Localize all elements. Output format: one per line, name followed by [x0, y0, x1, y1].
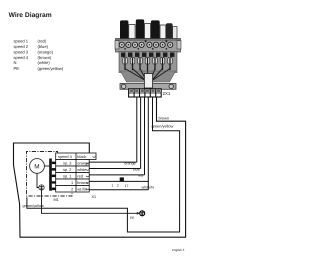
svg-text:white/N: white/N: [142, 186, 155, 190]
svg-text:(green/yellow): (green/yellow): [38, 66, 64, 71]
connector base screws: [122, 84, 174, 88]
wire row5 brown capacitor: [89, 180, 148, 182]
svg-text:speed 2: speed 2: [14, 44, 29, 49]
svg-text:speed 4: speed 4: [58, 154, 73, 159]
wire motor PE: [37, 173, 138, 213]
svg-text:PE: PE: [14, 66, 20, 71]
terminal row texts: [58, 154, 89, 192]
svg-text:X1: X1: [92, 195, 97, 199]
svg-text:(white): (white): [38, 60, 51, 65]
wire speed2 vertical w3: [144, 97, 146, 175]
svg-text:2: 2: [71, 186, 73, 191]
terminal block X1 table: [56, 153, 96, 192]
svg-text:sp. 3: sp. 3: [63, 160, 71, 165]
connector 2X1 ladder: [129, 89, 162, 97]
motor M: [30, 159, 45, 174]
capacitor C1: [120, 177, 124, 181]
connector cable 8: [173, 27, 177, 39]
connector cable 6: [160, 25, 166, 39]
legend speed 1: [14, 39, 47, 44]
svg-text:2: 2: [117, 184, 119, 188]
wire motor to bus: [44, 165, 49, 167]
connector cable 2: [129, 25, 135, 39]
legend speed 3: [14, 50, 54, 55]
legend speed 2: [14, 44, 49, 49]
connector cable 5: [151, 20, 160, 38]
motor dashed enclosure M1: [27, 152, 73, 197]
svg-text:red: red: [138, 174, 143, 178]
svg-text:PE: PE: [130, 216, 134, 220]
svg-text:sp. 1: sp. 1: [63, 173, 71, 178]
legend N: [14, 60, 51, 65]
svg-text:brown: brown: [159, 116, 170, 121]
bus stubs to terminals: [52, 162, 61, 191]
connector centre bundle: [144, 74, 152, 89]
svg-text:orange: orange: [77, 160, 89, 165]
svg-text:2X1: 2X1: [163, 91, 171, 96]
wire row2 orange: [89, 161, 137, 163]
ground terminal circle: [137, 211, 145, 216]
connector illustration body: [115, 39, 181, 90]
svg-text:speed 3: speed 3: [14, 50, 29, 55]
terminal crimp hooks: [86, 157, 96, 190]
svg-text:N: N: [14, 60, 17, 65]
svg-text:wt./Bl: wt./Bl: [77, 186, 87, 191]
svg-text:17: 17: [125, 184, 129, 188]
wire row3 blue: [89, 168, 140, 170]
connector comb section: [123, 58, 172, 71]
svg-text:green/yellow: green/yellow: [152, 124, 174, 129]
connector cable 7: [166, 23, 173, 38]
svg-text:blue: blue: [133, 168, 140, 172]
svg-text:M: M: [34, 163, 39, 170]
wire speed1 vertical w4: [147, 97, 149, 190]
motor bus bar: [49, 159, 52, 191]
svg-text:(red): (red): [38, 39, 47, 44]
wire speed3 vertical w2: [140, 97, 142, 169]
svg-text:1: 1: [71, 180, 73, 185]
earth symbol under motor: [39, 185, 44, 190]
legend speed 4: [14, 55, 53, 60]
svg-text:(blue): (blue): [38, 44, 49, 49]
wire speed4 vertical w1: [136, 97, 138, 162]
svg-text:green/yellow: green/yellow: [23, 204, 45, 208]
connector cable 3: [136, 19, 144, 38]
wire row4 red: [89, 174, 144, 176]
connector cable 1: [120, 20, 128, 38]
wire row6 white N: [89, 189, 148, 191]
svg-text:(orange): (orange): [38, 50, 54, 55]
svg-text:speed 1: speed 1: [14, 39, 29, 44]
svg-text:Wire Diagram: Wire Diagram: [9, 12, 52, 19]
connector cable 4: [145, 24, 151, 39]
connector slot row: [121, 53, 174, 57]
svg-text:black: black: [77, 154, 86, 159]
wire brown from connector: [14, 97, 186, 237]
svg-text:red: red: [77, 173, 83, 178]
svg-text:English 3: English 3: [172, 248, 185, 252]
connector fan-in wires: [125, 69, 170, 82]
wire green-yellow from connector: [27, 97, 180, 232]
svg-text:orange: orange: [124, 161, 135, 165]
svg-text:1: 1: [112, 184, 114, 188]
svg-text:sp. 2: sp. 2: [63, 167, 71, 172]
svg-text:white: white: [77, 167, 86, 172]
legend PE: [14, 66, 64, 71]
svg-text:M1: M1: [54, 198, 59, 202]
connector screw row: [119, 40, 173, 50]
